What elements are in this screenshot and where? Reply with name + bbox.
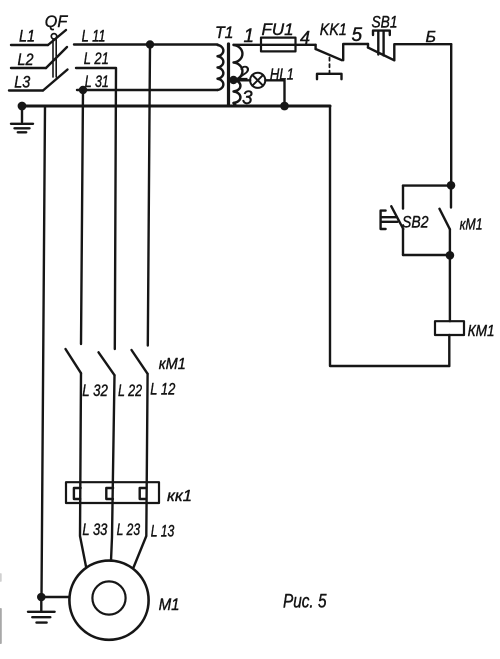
svg-text:М1: М1	[159, 595, 180, 614]
button SB2 plunger shaft	[381, 217, 398, 222]
contact KM1 aux lower terminal	[449, 229, 451, 255]
wire SB2 branch left lower	[402, 229, 404, 255]
motor M1 rotor circle	[92, 581, 125, 614]
svg-text:L 11: L 11	[82, 26, 106, 45]
node junction L31/phase drop	[79, 86, 87, 94]
wire pole 3 lower	[134, 374, 148, 568]
node parallel branch top	[447, 181, 456, 190]
button SB1 plunger	[378, 31, 383, 56]
contact KM1 aux upper terminal	[450, 185, 452, 207]
svg-text:L2: L2	[18, 50, 34, 69]
svg-text:Б: Б	[426, 29, 436, 46]
thermal contact KK1 dashed link	[329, 58, 331, 74]
transformer T1 core	[227, 44, 230, 106]
wire phase drop from L31	[81, 90, 83, 344]
button SB1 cap	[373, 31, 390, 35]
svg-text:КМ1: КМ1	[468, 323, 495, 340]
wire L1 input	[11, 44, 48, 46]
wire left earth riser	[42, 106, 46, 597]
svg-text:L 12: L 12	[150, 380, 175, 399]
svg-text:FU1: FU1	[262, 20, 294, 39]
breaker QF blade pole 1	[48, 30, 66, 45]
node motor earth junction	[37, 593, 46, 602]
fuse FU1	[261, 38, 296, 52]
wire L2 input	[11, 67, 46, 69]
wire secondary top to fuse	[234, 44, 316, 46]
svg-text:L 13: L 13	[151, 522, 175, 541]
motor M1 stator circle	[69, 561, 148, 640]
svg-text:L 31: L 31	[85, 72, 109, 91]
wire control loop return	[330, 106, 449, 366]
lamp HL1	[250, 73, 265, 88]
svg-text:T1: T1	[215, 23, 234, 42]
svg-text:L 33: L 33	[82, 520, 107, 539]
svg-text:Рис. 5: Рис. 5	[283, 592, 327, 613]
wire right riser	[450, 44, 452, 185]
wire pole 1 lower	[80, 373, 86, 566]
svg-text:5: 5	[352, 25, 363, 46]
button SB2 cap	[381, 211, 386, 229]
svg-text:L 22: L 22	[118, 381, 142, 400]
wire SB2 branch bottom	[403, 254, 450, 256]
contact KM1 main pole 1 blade	[66, 349, 82, 373]
wire L31	[77, 89, 218, 91]
wire secondary pin 3 to return line	[234, 103, 237, 106]
node secondary tap pin 2	[229, 76, 237, 84]
button SB2 blade	[391, 206, 403, 229]
thermal contact KK1 left step	[314, 45, 316, 49]
wire riser to coil	[449, 255, 451, 321]
svg-text:L 21: L 21	[84, 49, 109, 68]
svg-text:L 23: L 23	[117, 520, 141, 539]
breaker QF pivot circle	[51, 34, 56, 39]
node junction L11/phase drop	[146, 40, 154, 48]
coil KM1	[435, 321, 464, 335]
breaker QF linkage bar	[53, 40, 56, 78]
breaker QF blade pole 3	[43, 70, 68, 91]
svg-text:SB1: SB1	[372, 13, 398, 32]
node parallel branch bottom	[446, 251, 455, 260]
heater element 1	[74, 488, 81, 499]
heater element 3	[140, 488, 147, 499]
svg-text:SB2: SB2	[402, 213, 429, 232]
svg-text:4: 4	[300, 28, 310, 48]
wire lamp to return line	[265, 80, 284, 106]
wire earth to motor frame	[41, 596, 69, 598]
svg-text:кк1: кк1	[167, 488, 192, 505]
transformer T1 primary winding	[218, 45, 224, 90]
wire SB2 branch top	[403, 184, 451, 186]
node ground tap	[18, 102, 27, 111]
wire grounded return line	[22, 105, 330, 108]
wire L3 input	[9, 89, 43, 91]
svg-text:L3: L3	[14, 73, 30, 92]
svg-text:L 32: L 32	[82, 381, 108, 400]
transformer T1 secondary winding	[234, 45, 243, 103]
wire pole 2 lower	[111, 375, 115, 561]
scan artifact marks left edge	[0, 574, 2, 643]
wire SB2 branch left upper	[402, 186, 404, 209]
button SB1 blade	[368, 48, 394, 61]
wire L11	[74, 43, 218, 45]
svg-text:кМ1: кМ1	[159, 356, 186, 373]
node lamp branch junction	[280, 102, 289, 111]
wire phase drop from L11	[148, 45, 150, 346]
thermal relay KK1 heater box	[66, 482, 159, 503]
thermal contact KK1 right terminal	[343, 44, 368, 60]
button SB1 right terminal	[394, 44, 451, 60]
svg-text:L1: L1	[19, 26, 35, 45]
ground symbol top left	[11, 106, 33, 132]
heater element 2	[106, 488, 113, 499]
button SB1 left step	[367, 44, 369, 48]
svg-text:KK1: KK1	[320, 20, 347, 39]
contact KM1 main pole 3 blade	[132, 350, 148, 374]
contact KM1 aux blade	[440, 209, 450, 230]
thermal contact KK1 blade	[316, 49, 342, 60]
wire tap to lamp	[238, 79, 251, 81]
wire coil bottom	[448, 335, 450, 366]
thermal contact KK1 release bar	[317, 74, 342, 79]
svg-text:QF: QF	[45, 12, 69, 31]
svg-text:кМ1: кМ1	[460, 217, 483, 234]
ground symbol motor	[28, 597, 55, 623]
contact KM1 main pole 2 blade	[99, 352, 115, 375]
wire L21 with corner down	[76, 68, 116, 349]
breaker QF blade pole 2	[46, 47, 67, 68]
